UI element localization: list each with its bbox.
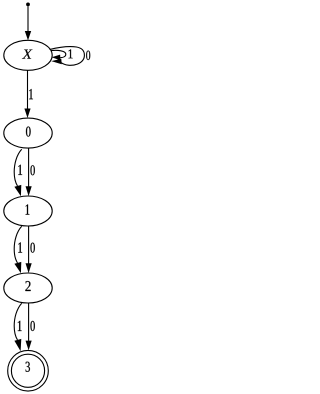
straight wire 0 to 1	[28, 148, 30, 186]
state 0 (ellipse)	[4, 118, 52, 148]
wire X to state 0	[27, 70, 29, 108]
arrowhead of straight wire into state 1	[26, 186, 32, 196]
label 3 of state 3	[26, 362, 30, 372]
arrowhead of straight wire into state 3	[26, 341, 32, 351]
state 1 (ellipse)	[4, 196, 52, 226]
value label 1 on wire X to 0	[29, 89, 33, 99]
state X (ellipse)	[4, 40, 52, 70]
accepting state 3 outer circle	[8, 350, 49, 391]
arrowhead into state X	[25, 31, 31, 40]
wire start to state X	[27, 6, 29, 31]
label X of state X	[22, 50, 33, 59]
label 2 of state 2	[25, 281, 30, 291]
arrowhead of curved wire into state 3	[14, 339, 21, 351]
label 0 of state 0	[26, 127, 31, 137]
self-loop wire on X for input 0	[50, 47, 85, 66]
value label 1 on curved wire 2 to 3	[18, 321, 22, 331]
value label 1 on curved wire 1 to 2	[18, 242, 22, 252]
state 2 (ellipse)	[4, 273, 52, 303]
value label 0 on straight wire 1 to 2	[31, 243, 35, 253]
arrowhead of straight wire into state 2	[26, 263, 32, 273]
value label 0 on straight wire 0 to 1	[31, 165, 35, 175]
straight wire 1 to 2	[28, 226, 30, 264]
value label 0 on self-loop	[86, 51, 90, 60]
curved wire 2 to 3	[14, 303, 22, 340]
label 1 of state 1	[26, 204, 30, 214]
value label 1 on self-loop	[69, 49, 73, 58]
arrowhead into state 0	[24, 109, 30, 119]
arrowhead of self-loop 0	[51, 59, 61, 65]
arrowhead of self-loop 1	[52, 55, 61, 61]
curved wire 0 to 1	[14, 149, 22, 186]
accepting state 3 inner circle	[11, 354, 44, 387]
self-loop wire on X for input 1	[51, 50, 66, 57]
arrowhead of curved wire into state 2	[14, 262, 21, 273]
start point	[26, 3, 30, 7]
value label 1 on curved wire 0 to 1	[18, 165, 22, 175]
straight wire 2 to 3	[28, 303, 30, 341]
curved wire 1 to 2	[14, 226, 22, 263]
arrowhead of curved wire into state 1	[14, 185, 21, 196]
value label 0 on straight wire 2 to 3	[31, 321, 35, 331]
